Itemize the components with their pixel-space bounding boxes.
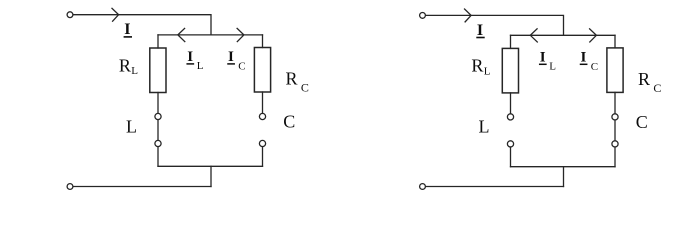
wire: C branch closed link (right circuit): [614, 120, 616, 141]
wire: left circuit branch bus: [158, 34, 263, 36]
node: C upper terminal (left circuit): [259, 113, 265, 119]
wire: C branch lower lead (right circuit): [614, 147, 616, 167]
svg-text:R: R: [119, 55, 131, 75]
arrow: current I direction (right circuit): [465, 9, 472, 22]
node: L lower terminal (left circuit): [155, 140, 161, 146]
resistor R_L (right circuit): [502, 48, 518, 93]
node: C lower terminal (left circuit, open gap above): [259, 140, 265, 146]
wire: right circuit branch bus: [511, 34, 616, 36]
wire: R_C bottom lead (right circuit): [614, 92, 616, 113]
svg-text:C: C: [591, 61, 598, 73]
wire: left circuit top feed: [73, 15, 211, 35]
arrow: I_L direction (right circuit): [530, 29, 537, 42]
svg-text:I: I: [187, 49, 193, 65]
wire: L branch closed link (left circuit): [157, 120, 159, 141]
node: C lower terminal (right circuit): [612, 141, 618, 147]
svg-text:L: L: [197, 60, 204, 72]
arrow: I_C direction (left circuit): [237, 28, 244, 41]
wire: R_L bottom lead (left circuit): [157, 93, 159, 114]
wire: right circuit top feed: [426, 15, 564, 35]
arrow: current I direction (left circuit): [112, 8, 119, 21]
wire: left circuit bottom bus: [158, 165, 263, 167]
svg-text:C: C: [636, 112, 648, 132]
svg-text:L: L: [131, 65, 138, 77]
svg-text:L: L: [484, 65, 491, 77]
svg-text:I: I: [228, 49, 234, 65]
wire: R_L top lead (left circuit): [157, 35, 159, 48]
resistor R_C (left circuit): [254, 48, 270, 93]
node: L upper terminal (left circuit): [155, 113, 161, 119]
node: L upper terminal (right circuit): [507, 114, 513, 120]
arrow: I_C direction (right circuit): [590, 29, 597, 42]
wire: R_C top lead (right circuit): [614, 35, 616, 48]
wire: left circuit bottom feed: [73, 186, 211, 188]
wire: right circuit bottom bus: [511, 166, 616, 168]
svg-text:L: L: [126, 116, 137, 136]
terminal T4 (right circuit, bottom input): [420, 184, 426, 190]
resistor R_L (left circuit): [150, 48, 166, 93]
wire: R_L bottom lead (right circuit): [510, 93, 512, 114]
wire: R_L top lead (right circuit): [510, 35, 512, 48]
svg-text:L: L: [479, 117, 490, 137]
svg-text:C: C: [301, 81, 309, 95]
arrow: I_L direction (left circuit): [178, 28, 185, 41]
wire: L branch lower lead (left circuit): [157, 147, 159, 167]
wire: C branch lower lead (left circuit): [262, 147, 264, 167]
node: L lower terminal (right circuit, open gap above): [507, 141, 513, 147]
svg-text:R: R: [471, 56, 483, 76]
terminal T3 (right circuit, top input): [420, 13, 426, 19]
wire: right circuit return drop: [563, 167, 565, 187]
svg-text:I: I: [477, 22, 483, 39]
svg-text:L: L: [549, 60, 556, 72]
node: C upper terminal (right circuit): [612, 114, 618, 120]
svg-text:I: I: [540, 50, 546, 66]
wire: right circuit bottom feed: [426, 186, 564, 188]
svg-text:C: C: [653, 81, 661, 95]
resistor R_C (right circuit): [607, 48, 623, 93]
terminal T2 (left circuit, bottom input): [67, 184, 73, 190]
terminal T1 (left circuit, top input): [67, 12, 73, 18]
svg-text:I: I: [581, 50, 587, 66]
svg-text:C: C: [238, 61, 245, 73]
svg-text:R: R: [638, 69, 650, 89]
wire: L branch lower lead (right circuit): [510, 147, 512, 167]
svg-text:R: R: [286, 69, 298, 89]
wire: R_C bottom lead (left circuit): [262, 92, 264, 113]
svg-text:I: I: [124, 21, 130, 38]
wire: left circuit return drop: [210, 166, 212, 186]
wire: R_C top lead (left circuit): [262, 35, 264, 48]
svg-text:C: C: [283, 112, 295, 132]
